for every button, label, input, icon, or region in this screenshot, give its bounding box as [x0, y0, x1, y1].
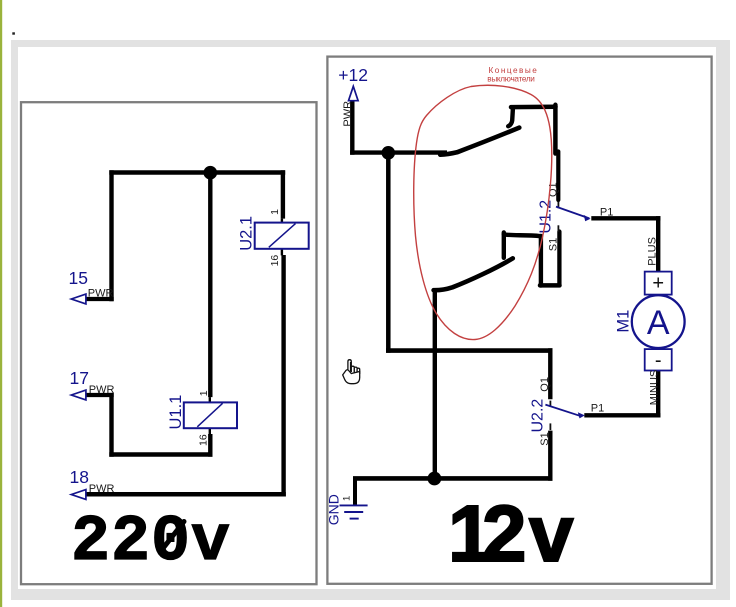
- wire U2.2 S1 vertical: [548, 431, 552, 481]
- pin 16 stub U1.1: [209, 429, 211, 434]
- svg-text:2: 2: [482, 489, 527, 578]
- svg-text:220v: 220v: [71, 505, 231, 579]
- wire U2.2 Q1 vertical: [548, 348, 552, 399]
- ground symbol bars: [340, 505, 368, 518]
- wire gnd stub: [353, 478, 357, 505]
- svg-text:P1: P1: [600, 206, 613, 218]
- wire U1.1 pin16 down: [208, 434, 212, 457]
- wire net15 horizontal: [85, 297, 114, 301]
- relay coil U1.1 diagonal: [197, 403, 222, 427]
- wire P1 lower horizontal: [584, 413, 660, 417]
- svg-text:M1: M1: [615, 310, 633, 333]
- svg-text:U2.1: U2.1: [238, 216, 256, 251]
- pin 16 stub U2.1: [281, 249, 283, 255]
- pin stub U1.2 S1: [557, 225, 559, 232]
- svg-text:1: 1: [341, 496, 352, 501]
- svg-text:U2.2: U2.2: [529, 399, 546, 433]
- pin 1 stub U2.1: [281, 219, 283, 223]
- wire net18 horizontal: [85, 492, 286, 497]
- hand cursor: [343, 360, 360, 384]
- svg-text:v: v: [529, 489, 574, 578]
- wire top horizontal (220v): [109, 170, 285, 175]
- limit switch 1 top horizontal: [511, 105, 556, 110]
- limit switch 2 blade: [434, 258, 513, 290]
- junction dot (+12 net): [382, 146, 396, 160]
- pin stub U2.2 S1: [549, 423, 551, 430]
- pin stub U2.2 Q1: [549, 401, 551, 407]
- wire net17 vertical: [109, 393, 113, 457]
- svg-text:S1: S1: [539, 432, 551, 445]
- wire P1 upper horizontal: [591, 216, 660, 220]
- power arrow +12: [349, 86, 359, 100]
- wire junction vertical down: [386, 150, 391, 352]
- blade arrowhead U1.2: [584, 215, 591, 221]
- motor body circle M1: [632, 295, 685, 348]
- green left edge stripe: [0, 0, 2, 607]
- tiny black speck: [12, 32, 15, 34]
- svg-text:Q1: Q1: [539, 377, 551, 392]
- switch blade U1.2: [556, 207, 589, 219]
- svg-text:A: A: [647, 304, 670, 342]
- relay coil U1.1 box: [184, 402, 237, 428]
- switch blade U2.2: [545, 405, 581, 417]
- wire left vertical (220v): [109, 170, 113, 301]
- blade arrowhead U2.2: [578, 412, 585, 418]
- motor plus terminal box: [645, 272, 672, 295]
- svg-text:P1: P1: [591, 402, 604, 414]
- svg-text:S1: S1: [547, 238, 559, 251]
- slash in zero of 220v: [161, 522, 185, 552]
- junction dot (220v top): [204, 166, 218, 180]
- wire middle horizontal to U2.2: [386, 348, 553, 353]
- relay coil U2.1 diagonal: [269, 224, 296, 248]
- relay coil U2.1 box: [255, 223, 309, 249]
- power arrow net17: [71, 390, 86, 400]
- wire U1.2 Q1 vertical: [556, 152, 560, 201]
- svg-text:1: 1: [198, 390, 210, 396]
- svg-text:U1.1: U1.1: [167, 395, 185, 430]
- wire up to U1.2 S1: [557, 232, 561, 286]
- wire U2.1 pin1 from top: [281, 170, 285, 218]
- svg-text:+12: +12: [338, 65, 368, 85]
- limit switch 1 blade: [440, 128, 519, 155]
- limit switch 1 contact stub: [508, 109, 513, 127]
- sheet frame 220v: [21, 102, 317, 584]
- svg-text:1: 1: [269, 209, 281, 215]
- power arrow net18: [71, 490, 86, 500]
- svg-text:15: 15: [69, 268, 88, 288]
- svg-text:MINUS: MINUS: [648, 370, 660, 405]
- sheet frame 12v: [327, 57, 711, 584]
- junction dot (gnd net): [428, 472, 442, 486]
- pin 1 stub U1.1: [209, 397, 211, 402]
- wire bottom horizontal (gnd net): [353, 476, 553, 481]
- svg-text:17: 17: [70, 368, 89, 388]
- red annotation ellipse: [414, 85, 552, 339]
- svg-text:PLUS: PLUS: [647, 237, 659, 266]
- svg-text:GND: GND: [325, 494, 341, 525]
- limit switch 2 right vertical: [539, 236, 543, 286]
- wire PLUS vertical: [656, 216, 660, 272]
- svg-text:выключатели: выключатели: [487, 74, 534, 83]
- wire MINUS vertical: [656, 370, 660, 417]
- wire switch2 to bottom vertical: [433, 289, 437, 481]
- wire net17 horizontal: [85, 393, 114, 397]
- limit switch 2 top horizontal wavy: [504, 234, 541, 236]
- power arrow net15: [71, 294, 86, 304]
- svg-text:PWR: PWR: [89, 483, 115, 495]
- pin stub U1.2 Q1: [557, 202, 559, 209]
- svg-text:PWR: PWR: [89, 384, 115, 396]
- motor minus terminal box: [645, 349, 672, 370]
- limit switch 2 contact stub: [502, 232, 506, 257]
- wire U2.1 pin16 down to net18: [281, 255, 285, 497]
- svg-text:PWR: PWR: [88, 288, 114, 300]
- svg-text:+: +: [652, 273, 664, 295]
- svg-text:PWR: PWR: [342, 101, 354, 127]
- svg-text:18: 18: [70, 467, 89, 487]
- wire bottom horizontal to net17: [109, 452, 212, 457]
- limit switch 2 bottom horizontal: [540, 283, 560, 288]
- svg-text:16: 16: [269, 255, 281, 267]
- svg-text:16: 16: [198, 434, 210, 446]
- wire +12 horizontal: [350, 150, 447, 154]
- wire center vertical to U1.1: [208, 170, 212, 397]
- wire +12 vertical: [350, 100, 354, 155]
- svg-text:-: -: [655, 350, 662, 372]
- limit switch 1 right wire down: [553, 105, 558, 154]
